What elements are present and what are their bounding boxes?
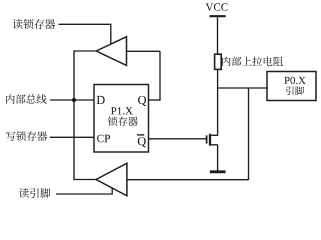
label: read latch: [13, 19, 56, 29]
label: read pin: [19, 188, 50, 198]
label: latch (inside U1): [108, 117, 138, 127]
overline of Q-bar: [137, 134, 144, 136]
junction: bus riser x internal bus: [72, 98, 76, 102]
wire: V1 source jog: [211, 144, 218, 146]
wire: Q pin stub: [149, 99, 161, 101]
wire: read-latch enable vertical into buffer top edge: [110, 24, 112, 45]
resistor R1 (internal pull-up): [215, 54, 222, 69]
wire: pin node down to U3 input: [248, 88, 250, 180]
wire: Q-bar to FET gate: [149, 138, 207, 140]
wire: U2 output to internal bus riser: [74, 50, 97, 52]
wire: U3 output to bus riser: [74, 179, 96, 181]
label: internal pull-up resistor: [222, 57, 283, 67]
buffer U3 (read pin tri-state): [96, 163, 127, 196]
pin label Q-bar: [138, 137, 146, 147]
pin label CP: [97, 135, 110, 143]
wire: pin node horizontal to P0.X pin box: [218, 87, 267, 89]
latch U1 box (P1.X latch): [94, 85, 149, 153]
label: write latch: [6, 131, 47, 141]
wire: read-pin enable vertical into buffer bottom edge: [111, 188, 113, 195]
wire: U2 input horizontal: [126, 50, 160, 52]
pin label D: [97, 96, 105, 104]
wire: U3 input horizontal: [127, 179, 249, 181]
power VCC bar: [210, 15, 226, 17]
transistor V1 channel bar: [209, 134, 211, 146]
pin label Q: [138, 96, 146, 106]
wire: bus riser vertical (U2 output to U3 output): [73, 50, 75, 180]
wire: read-pin enable horizontal: [56, 193, 112, 195]
label: internal bus: [6, 94, 47, 104]
wire: resistor to drain / pin node: [217, 69, 219, 135]
label: P1.X (inside U1): [111, 107, 133, 115]
pin box (P0.X pin): [267, 72, 316, 101]
wire: source to ground: [217, 145, 219, 171]
wire: Q to U2 input vertical: [159, 51, 161, 100]
transistor V1 (FET) gate bar: [206, 135, 208, 143]
ground: [210, 170, 226, 173]
wire: write-latch to CP: [50, 136, 94, 138]
wire: VCC to resistor: [217, 17, 219, 54]
buffer U2 (read latch tri-state): [96, 37, 126, 66]
wire: V1 drain jog: [211, 134, 218, 136]
wire: internal bus horizontal to D: [50, 99, 94, 101]
label: pin (inside pin box): [286, 86, 304, 95]
label: P0.X (inside pin box): [284, 77, 305, 84]
label: VCC: [206, 3, 228, 11]
wire: read-latch enable horizontal: [59, 23, 111, 25]
